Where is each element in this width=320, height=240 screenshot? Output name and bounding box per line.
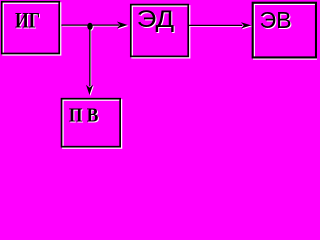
svg-text:ЭД: ЭД <box>137 6 175 33</box>
svg-text:ИГ: ИГ <box>15 7 40 32</box>
svg-text:П В: П В <box>69 105 99 127</box>
svg-text:ЭВ: ЭВ <box>260 7 292 33</box>
